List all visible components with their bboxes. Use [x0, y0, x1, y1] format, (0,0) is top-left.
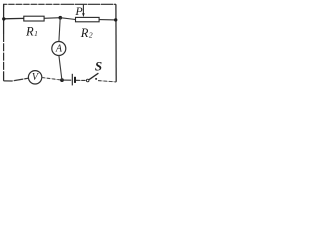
wire: battery to switch pivot	[76, 79, 86, 81]
wire: bottom-left segment (border corner to voltmeter)	[4, 78, 29, 81]
wire: center junction down to ammeter	[59, 18, 60, 42]
rheostat slider wire from top border	[82, 4, 84, 14]
svg-text:P: P	[74, 4, 83, 18]
svg-text:2: 2	[89, 30, 93, 39]
voltmeter V	[28, 71, 41, 84]
wire: R2 to right border	[99, 19, 116, 21]
battery (cell): long positive plate	[71, 74, 73, 86]
svg-text:S: S	[95, 59, 102, 74]
node: center junction (ammeter tap)	[59, 16, 63, 20]
resistor R1 box	[24, 16, 44, 21]
wire: left border	[3, 4, 5, 34]
node: bottom junction (ammeter branch tap)	[60, 78, 64, 82]
background	[0, 0, 121, 93]
rheostat slider arrowhead P	[82, 13, 85, 17]
svg-text:A: A	[55, 44, 63, 55]
wire: junction to battery	[62, 79, 71, 81]
switch S: open lever blade	[89, 73, 98, 80]
svg-text:1: 1	[34, 29, 38, 38]
svg-text:R: R	[25, 24, 34, 38]
node: junction on left border	[2, 17, 5, 20]
resistor R2 box (rheostat track)	[76, 17, 100, 21]
wire: right border	[115, 4, 117, 82]
wire: R1 to center junction	[44, 17, 60, 20]
battery (cell): short negative plate	[74, 77, 76, 83]
wire: ammeter down to bottom junction	[59, 56, 62, 80]
switch S: right contact dot	[95, 78, 97, 80]
wire: switch to bottom-right corner	[98, 81, 116, 82]
wire: resistor rail, left border to R1	[4, 17, 24, 19]
ammeter A	[52, 42, 66, 56]
switch S: pivot contact circle	[86, 79, 89, 82]
wire: center junction to R2	[60, 18, 75, 20]
wire: voltmeter to bottom junction (dashed)	[42, 78, 62, 81]
wire: top border	[4, 4, 116, 7]
svg-text:R: R	[80, 26, 89, 40]
node: junction on right border	[114, 18, 117, 21]
